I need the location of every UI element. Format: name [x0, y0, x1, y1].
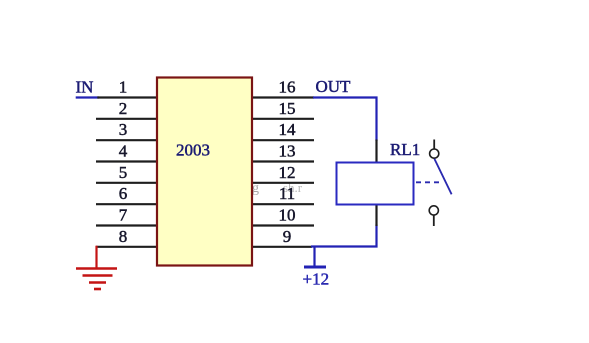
- switch upper terminal stub: [433, 140, 435, 149]
- wire: pin 8 to ground (red vertical): [95, 246, 97, 269]
- pin 15 lead: [252, 118, 314, 120]
- svg-text:4: 4: [119, 142, 128, 161]
- pin 11 lead: [252, 203, 314, 205]
- wire: IN net to pin 1 (blue): [76, 96, 99, 98]
- IC U1 body: [157, 78, 252, 266]
- ground bar 4: [94, 288, 101, 291]
- wire: pin 16 to relay (blue, horizontal then down): [313, 98, 377, 142]
- svg-text:11: 11: [279, 184, 295, 203]
- switch lower terminal stub: [433, 215, 435, 226]
- pin 16 lead: [252, 96, 314, 98]
- pin 5 lead: [96, 182, 157, 184]
- pin 4 lead: [96, 160, 157, 162]
- pin 8 lead: [96, 246, 157, 248]
- svg-text:2: 2: [119, 99, 128, 118]
- svg-text:1: 1: [119, 78, 128, 97]
- pin 3 lead: [96, 139, 157, 141]
- svg-text:IN: IN: [76, 78, 94, 97]
- ground bar 1: [76, 267, 117, 270]
- switch lower contact circle: [429, 206, 438, 215]
- relay RL1 coil leads (black): [375, 140, 377, 227]
- pin 14 lead: [252, 139, 314, 141]
- pin 13 lead: [252, 160, 314, 162]
- ground bar 2: [83, 274, 113, 277]
- svg-text:14: 14: [279, 120, 297, 139]
- power +12 stub (blue): [313, 247, 315, 267]
- svg-text:13: 13: [279, 142, 296, 161]
- switch lever (blue diagonal): [434, 159, 451, 195]
- wire: relay bottom to +12 rail (blue): [311, 225, 377, 247]
- pin 9 lead: [252, 246, 312, 248]
- ground bar 3: [89, 281, 106, 284]
- svg-text:2003: 2003: [176, 140, 210, 159]
- svg-text:15: 15: [279, 99, 296, 118]
- svg-text:16: 16: [279, 78, 296, 97]
- svg-text:7: 7: [119, 206, 128, 225]
- pin 1 lead: [97, 96, 157, 98]
- relay RL1 coil box: [337, 163, 414, 205]
- pin 12 lead: [252, 182, 314, 184]
- pin 10 lead: [252, 224, 314, 226]
- pin 6 lead: [96, 203, 157, 205]
- switch upper contact circle: [430, 149, 439, 158]
- svg-text:9: 9: [283, 227, 292, 246]
- pin 2 lead: [96, 118, 157, 120]
- svg-text:5: 5: [119, 163, 128, 182]
- svg-text:OUT: OUT: [316, 77, 352, 96]
- power +12 bar: [304, 266, 326, 269]
- svg-text:3: 3: [119, 120, 128, 139]
- svg-text:6: 6: [119, 184, 128, 203]
- svg-text:8: 8: [119, 227, 128, 246]
- svg-text:+12: +12: [303, 269, 330, 288]
- pin 7 lead: [96, 224, 157, 226]
- relay RL1 actuation dashed link: [416, 181, 441, 183]
- svg-text:10: 10: [279, 206, 296, 225]
- svg-text:RL1: RL1: [390, 140, 420, 159]
- svg-text:12: 12: [279, 163, 296, 182]
